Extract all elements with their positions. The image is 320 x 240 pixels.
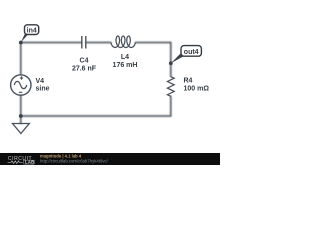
V4 minus sign (19, 91, 22, 93)
V4 plus sign (20, 76, 23, 79)
flag in4 box (25, 25, 39, 35)
watermark bar (0, 153, 220, 165)
wire right vertical to resistor (170, 43, 172, 77)
flag in4 pointer (21, 34, 28, 42)
wire resistor to bottom-right corner and bottom to junction (21, 96, 171, 116)
svg-text:http://circuitlab.com/c6sb7hyk: http://circuitlab.com/c6sb7hyk4t8vc/ (40, 159, 109, 164)
svg-text:L4: L4 (121, 54, 129, 61)
node in4 junction dot (19, 41, 23, 45)
V4 sine symbol (14, 81, 27, 88)
inductor L4 (111, 36, 135, 48)
svg-text:C4: C4 (80, 57, 89, 64)
svg-text:176 mH: 176 mH (113, 62, 138, 69)
svg-text:27.6 nF: 27.6 nF (72, 65, 97, 72)
capacitor C4 (82, 36, 86, 49)
wire top segment node to capacitor (21, 42, 82, 44)
svg-text:sine: sine (36, 86, 50, 93)
flag out4 pointer (171, 52, 184, 63)
svg-text:100 mΩ: 100 mΩ (184, 86, 210, 93)
flag out4 box (181, 46, 201, 57)
wire source to junction (20, 95, 22, 116)
wire capacitor to inductor (86, 42, 111, 44)
svg-text:in4: in4 (27, 27, 37, 34)
wire junction to ground (20, 116, 22, 124)
node out4 junction dot (169, 61, 173, 65)
svg-text:LAB: LAB (25, 160, 35, 165)
wire inductor to top-right corner (136, 42, 171, 44)
svg-text:V4: V4 (36, 78, 45, 85)
svg-text:out4: out4 (184, 49, 199, 56)
wire left vertical node to source (20, 43, 22, 75)
node bottom junction dot (19, 114, 23, 118)
resistor R4 (167, 77, 174, 97)
voltage source V4 (11, 75, 31, 95)
svg-text:R4: R4 (184, 78, 193, 85)
ground (13, 124, 30, 134)
logo resistor zigzag (8, 161, 23, 164)
logo LAB text (24, 160, 35, 164)
